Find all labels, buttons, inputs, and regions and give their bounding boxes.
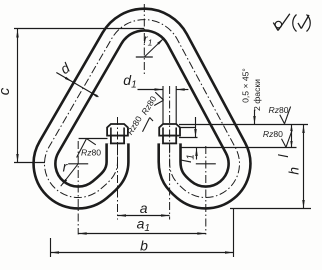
- svg-text:2 фаски: 2 фаски: [252, 79, 262, 111]
- svg-text:h: h: [285, 167, 301, 175]
- svg-text:b: b: [140, 238, 148, 254]
- svg-text:0,5 × 45°: 0,5 × 45°: [241, 68, 251, 103]
- svg-text:Rz80: Rz80: [269, 105, 289, 115]
- svg-text:a: a: [140, 200, 148, 216]
- svg-text:Rz80: Rz80: [263, 129, 283, 139]
- svg-text:c: c: [0, 87, 13, 95]
- svg-text:Rz80: Rz80: [81, 148, 101, 158]
